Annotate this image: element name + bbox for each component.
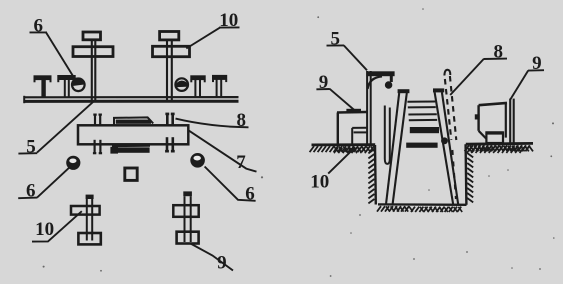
- label 5: [18, 102, 93, 158]
- top pin left: [93, 115, 102, 126]
- T-bolt 1 on rail: [34, 75, 52, 97]
- bottom pin right: [165, 137, 175, 151]
- label 10 top: [186, 10, 239, 48]
- top pin right: [165, 114, 174, 126]
- ladder right rail: [433, 88, 458, 204]
- square nut: [125, 168, 137, 180]
- label 9 left (right-fig): [316, 72, 355, 110]
- body housing (item 7/8 block): [78, 125, 188, 144]
- label 9 right (right-fig): [510, 53, 544, 99]
- label 7: [189, 131, 257, 173]
- trench right wall: [466, 144, 474, 205]
- phantom pole 8 (dashed): [444, 70, 456, 199]
- screw post 1 (left): [73, 32, 113, 102]
- ball 6 right on rail: [175, 78, 188, 91]
- ladder rung 4 (sill): [406, 143, 437, 148]
- top plate: [114, 117, 153, 125]
- svg-text:10: 10: [35, 219, 54, 240]
- label 8 left-fig: [176, 110, 249, 131]
- anchor left (item 10): [71, 195, 101, 245]
- bottom plate: [110, 146, 150, 154]
- label 8 right-fig: [450, 41, 507, 95]
- ladder left rail: [386, 89, 409, 204]
- anchor right (item 9): [173, 191, 198, 243]
- ladder rung 2: [408, 114, 437, 120]
- right machine: [475, 99, 514, 144]
- hanging sling: [385, 106, 390, 164]
- bottom pin left: [93, 140, 102, 153]
- label 10 right-fig: [310, 147, 355, 192]
- rail (top view base): [24, 96, 239, 103]
- T-bolt 3 on rail: [190, 75, 205, 97]
- T-bolt 4 on rail: [212, 75, 227, 97]
- svg-text:10: 10: [310, 171, 329, 192]
- ground surface left: [310, 145, 376, 154]
- label 5 right-fig: [327, 28, 368, 70]
- label 10 bottom: [32, 211, 82, 241]
- T-bolt 2 on rail: [57, 75, 75, 97]
- davit post 5: [366, 71, 394, 146]
- bolt dot: [442, 138, 447, 143]
- pulley ball on davit: [386, 82, 392, 88]
- label 6 bottom-left: [18, 168, 69, 202]
- svg-text:5: 5: [26, 137, 36, 158]
- ladder rung 3: [410, 127, 439, 133]
- trench left wall: [368, 145, 375, 205]
- trench bottom: [377, 204, 467, 212]
- ball 6 lower-right: [191, 154, 203, 166]
- left machine box: [337, 109, 368, 145]
- ladder rung 1: [407, 102, 435, 108]
- ball 6 lower-left: [67, 157, 79, 169]
- screw post 2 (right, item 10): [153, 32, 190, 102]
- label 6 bottom-right: [205, 167, 256, 205]
- label 6 top-left: [30, 15, 76, 79]
- ball 6 left on rail: [72, 78, 85, 91]
- ground surface right: [465, 143, 533, 153]
- label 9 bottom: [191, 244, 234, 274]
